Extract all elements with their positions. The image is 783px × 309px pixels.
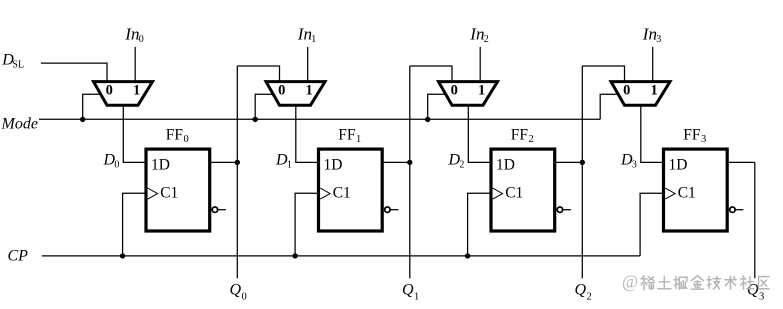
svg-text:0: 0 [139,34,144,45]
svg-text:3: 3 [656,34,661,45]
svg-text:Q: Q [575,281,587,298]
svg-text:0: 0 [451,82,458,98]
svg-text:Q: Q [747,281,759,298]
svg-text:0: 0 [278,82,285,98]
svg-text:Q: Q [402,281,414,298]
svg-text:1: 1 [287,160,292,171]
svg-text:1: 1 [650,82,657,98]
svg-text:1: 1 [414,292,419,303]
svg-text:C1: C1 [333,184,351,201]
svg-text:In: In [642,24,657,43]
svg-text:1D: 1D [324,156,343,173]
svg-text:C1: C1 [678,184,696,201]
svg-text:1D: 1D [669,156,688,173]
svg-text:In: In [124,24,139,43]
svg-text:3: 3 [759,292,764,303]
svg-text:SL: SL [12,60,24,71]
svg-text:3: 3 [701,134,706,145]
svg-text:FF: FF [683,126,701,143]
svg-text:Q: Q [230,281,242,298]
svg-text:0: 0 [623,82,630,98]
svg-text:FF: FF [511,126,529,143]
svg-text:1D: 1D [151,156,170,173]
svg-text:0: 0 [114,160,119,171]
svg-text:0: 0 [242,292,247,303]
svg-text:2: 2 [459,160,464,171]
svg-text:3: 3 [632,160,637,171]
svg-text:1: 1 [305,82,312,98]
svg-text:C1: C1 [160,184,178,201]
svg-text:In: In [469,24,484,43]
svg-text:1: 1 [356,134,361,145]
svg-text:2: 2 [587,292,592,303]
svg-text:Mode: Mode [1,116,38,133]
svg-text:2: 2 [484,34,489,45]
svg-text:0: 0 [184,134,189,145]
svg-text:1: 1 [478,82,485,98]
svg-text:1: 1 [133,82,140,98]
svg-text:In: In [297,24,312,43]
svg-text:CP: CP [8,248,29,265]
svg-text:FF: FF [166,126,184,143]
svg-text:1D: 1D [496,156,515,173]
svg-text:FF: FF [338,126,356,143]
svg-text:@: @ [622,271,638,291]
svg-text:2: 2 [529,134,534,145]
svg-text:0: 0 [106,82,113,98]
svg-text:1: 1 [311,34,316,45]
svg-text:C1: C1 [505,184,523,201]
